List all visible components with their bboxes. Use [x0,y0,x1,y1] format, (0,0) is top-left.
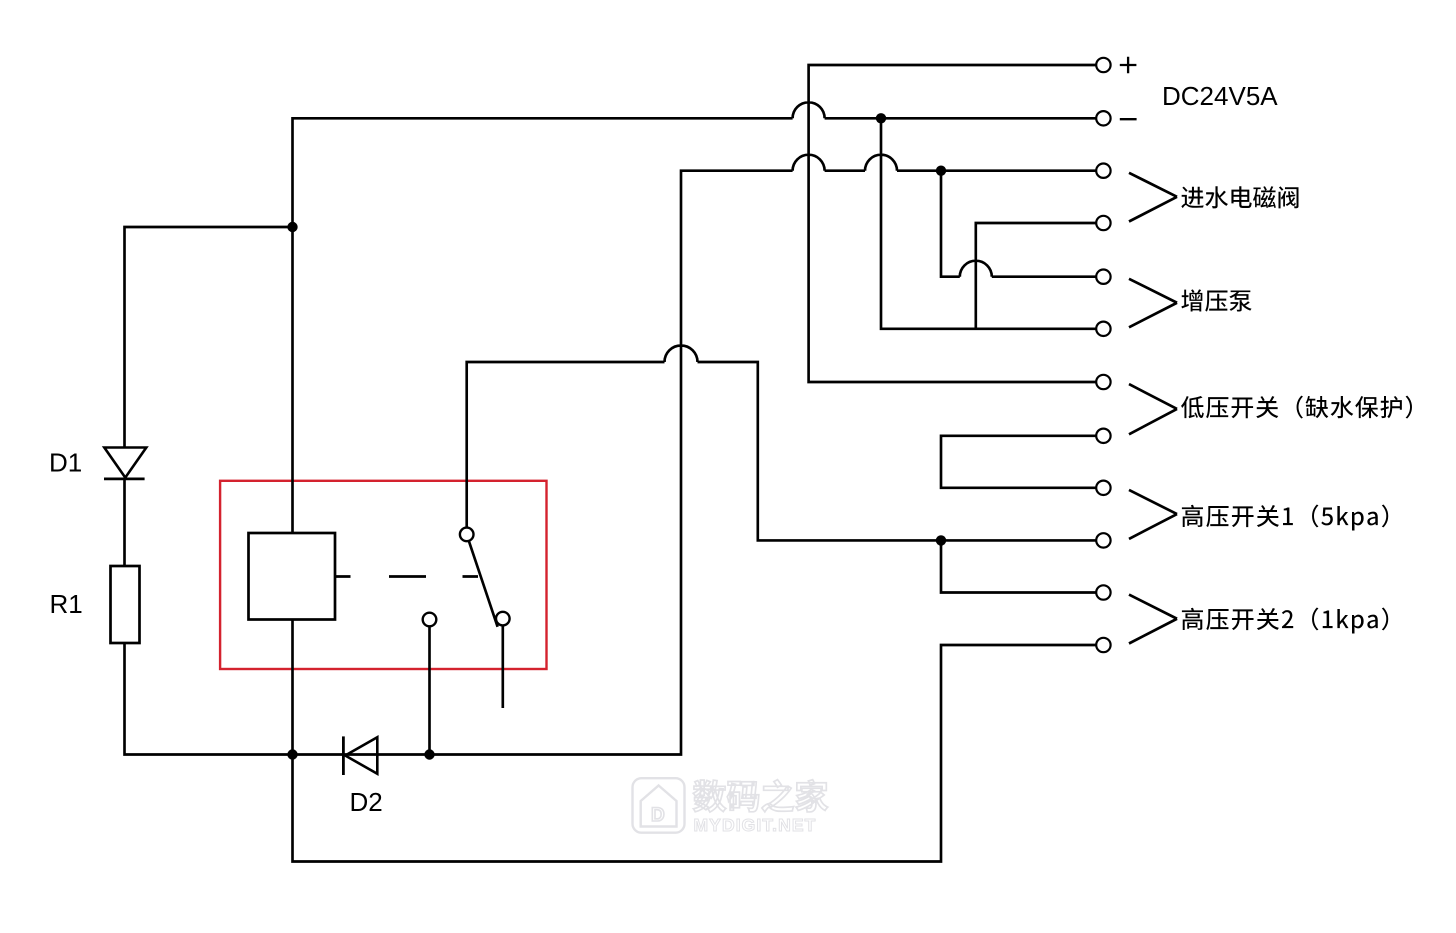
svg-text:MYDIGIT.NET: MYDIGIT.NET [694,815,817,835]
svg-text:DC24V5A: DC24V5A [1162,81,1278,111]
svg-text:D1: D1 [49,448,82,478]
svg-text:D: D [651,805,665,826]
svg-text:R1: R1 [50,589,83,619]
svg-text:D2: D2 [350,787,383,817]
